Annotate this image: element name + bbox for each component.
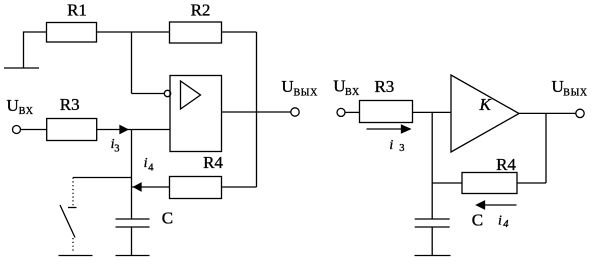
svg-text:U: U (552, 77, 564, 96)
svg-text:R4: R4 (496, 155, 516, 174)
svg-text:U: U (7, 96, 19, 115)
svg-text:3: 3 (114, 144, 119, 155)
svg-text:ВЫХ: ВЫХ (294, 87, 319, 98)
svg-text:C: C (162, 208, 173, 227)
svg-text:R2: R2 (191, 1, 211, 20)
svg-text:i: i (144, 156, 148, 171)
svg-text:K: K (479, 95, 493, 114)
svg-text:U: U (333, 77, 345, 96)
svg-text:R1: R1 (67, 1, 87, 20)
svg-text:4: 4 (503, 219, 509, 230)
svg-text:ВХ: ВХ (345, 87, 360, 98)
svg-text:R3: R3 (374, 77, 394, 96)
svg-text:i: i (498, 213, 502, 228)
svg-text:U: U (281, 77, 293, 96)
svg-text:ВХ: ВХ (19, 106, 34, 117)
svg-text:R4: R4 (203, 153, 223, 172)
svg-text:C: C (472, 210, 483, 229)
svg-text:ВЫХ: ВЫХ (563, 87, 588, 98)
svg-text:i: i (389, 138, 393, 153)
svg-text:R3: R3 (60, 95, 80, 114)
svg-text:3: 3 (399, 143, 404, 154)
svg-text:4: 4 (148, 163, 154, 174)
